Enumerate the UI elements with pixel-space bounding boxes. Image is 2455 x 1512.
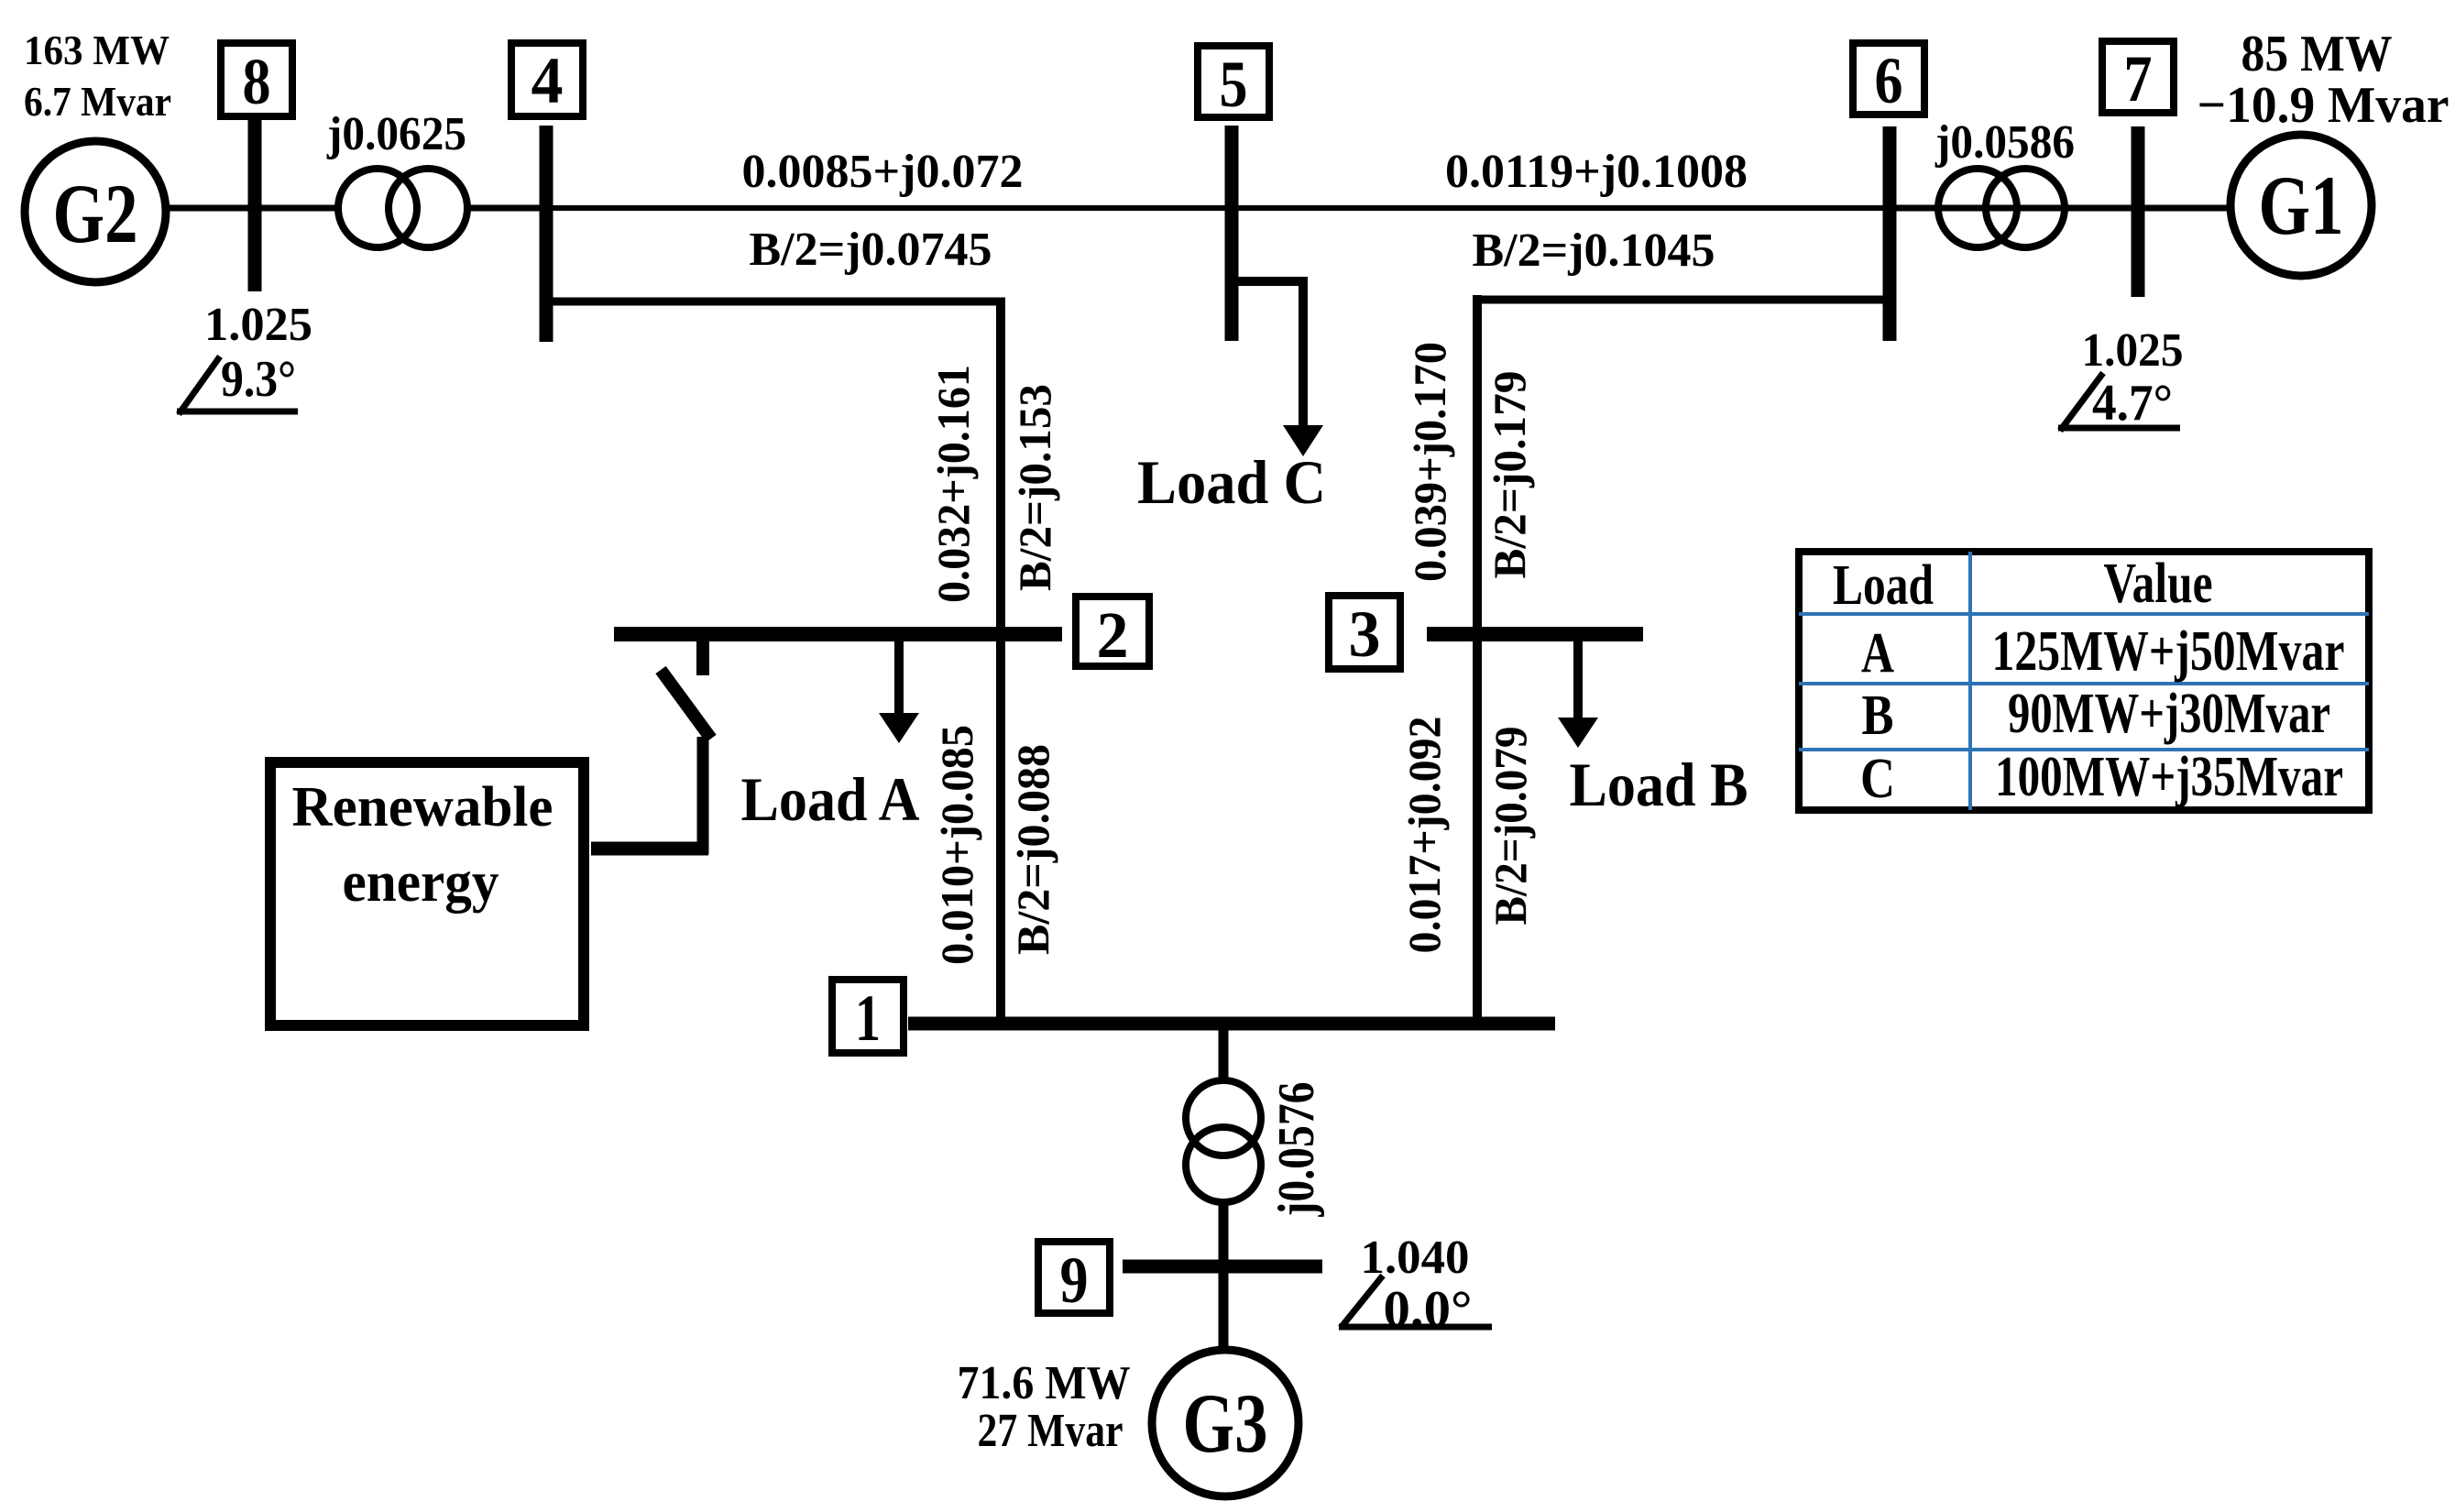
svg-text:G3: G3 (1183, 1376, 1268, 1470)
transformer T19 (bus1-bus9) (1186, 1080, 1261, 1202)
svg-text:Load: Load (1833, 554, 1934, 617)
wire line 2-1 (996, 641, 1005, 1018)
svg-text:163 MW: 163 MW (24, 27, 170, 73)
svg-text:6: 6 (1875, 44, 1903, 117)
load table row C (1860, 746, 2343, 810)
svg-text:B/2=j0.179: B/2=j0.179 (1484, 371, 1535, 579)
generator G2 (25, 141, 166, 282)
svg-text:1.040: 1.040 (1361, 1232, 1470, 1284)
load table header row (1833, 553, 2213, 617)
bus 7 (2132, 126, 2145, 297)
svg-text:0.017+j0.092: 0.017+j0.092 (1398, 717, 1450, 954)
svg-text:0.0085+j0.072: 0.0085+j0.072 (742, 146, 1024, 198)
svg-text:Value: Value (2104, 553, 2213, 615)
generator G1 (2230, 135, 2372, 276)
node box 8 (221, 43, 292, 118)
wire bus 9 to G3 (1219, 1266, 1229, 1352)
svg-text:5: 5 (1220, 48, 1248, 121)
svg-text:j0.0586: j0.0586 (1934, 116, 2075, 169)
svg-text:9.3°: 9.3° (221, 351, 296, 408)
svg-text:C: C (1860, 748, 1895, 810)
svg-text:9: 9 (1060, 1244, 1089, 1317)
load table row A (1861, 620, 2345, 685)
node box 7 (2102, 41, 2174, 115)
svg-text:4.7°: 4.7° (2092, 375, 2173, 432)
svg-text:j0.0576: j0.0576 (1268, 1082, 1325, 1218)
svg-text:0.039+j0.170: 0.039+j0.170 (1404, 342, 1455, 582)
bus 3 (1427, 627, 1643, 641)
svg-text:3: 3 (1349, 597, 1381, 671)
Load C tap wire from bus 5 (1232, 277, 1303, 427)
bus 8 (248, 116, 262, 291)
wire G2 to transformer T82 (165, 205, 342, 212)
svg-text:100MW+j35Mvar: 100MW+j35Mvar (1995, 746, 2343, 808)
svg-text:0.010+j0.085: 0.010+j0.085 (931, 725, 982, 965)
generator G1 output label "85 MW / -10.9 Mvar" (2197, 26, 2450, 134)
node box 1 (832, 980, 904, 1055)
node box 9 (1038, 1242, 1110, 1317)
node box 4 (511, 43, 583, 117)
generator G2 output label "163 MW / 6.7 Mvar" (24, 27, 171, 125)
wire bus6 to T67 to bus7 to G1 (1890, 205, 2233, 212)
bus 1 (908, 1017, 1555, 1031)
node box 3 (1329, 596, 1400, 671)
svg-text:85 MW: 85 MW (2241, 26, 2393, 82)
svg-text:1.025: 1.025 (2082, 324, 2184, 377)
wire line 4-5 (top) (546, 205, 1232, 211)
svg-text:27 Mvar: 27 Mvar (978, 1405, 1123, 1457)
wire line 6-3 (1477, 295, 1890, 634)
svg-text:G1: G1 (2259, 159, 2344, 252)
wire line 4-2 (546, 298, 1005, 634)
svg-text:125MW+j50Mvar: 125MW+j50Mvar (1992, 620, 2345, 683)
svg-text:2: 2 (1097, 598, 1129, 672)
bus 9 voltage label 1.040 angle 0.0deg (1339, 1232, 1492, 1338)
wire bus1 to transformer T19 (1219, 1024, 1229, 1083)
svg-text:1: 1 (855, 981, 881, 1055)
svg-text:0.0°: 0.0° (1384, 1281, 1473, 1338)
bus 8 voltage label 1.025 angle 9.3deg (177, 299, 312, 414)
wire T82 to bus 4 (467, 205, 550, 212)
svg-text:90MW+j30Mvar: 90MW+j30Mvar (2008, 683, 2330, 745)
svg-text:B/2=j0.079: B/2=j0.079 (1485, 727, 1536, 926)
load table frame (1799, 552, 2369, 810)
svg-text:G2: G2 (53, 167, 138, 260)
transformer T67 (bus6-bus7) (1938, 169, 2065, 247)
svg-text:71.6 MW: 71.6 MW (958, 1357, 1131, 1409)
svg-text:Load B: Load B (1570, 750, 1748, 819)
bus 5 (1225, 126, 1239, 341)
generator G3 output label "71.6 MW / 27 Mvar" (958, 1357, 1131, 1457)
svg-text:B: B (1862, 685, 1894, 747)
svg-text:1.025: 1.025 (204, 299, 312, 351)
svg-text:0.0119+j0.1008: 0.0119+j0.1008 (1445, 146, 1748, 198)
wire T19 to bus 9 (1219, 1200, 1229, 1260)
svg-text:8: 8 (243, 45, 271, 118)
svg-text:Load C: Load C (1137, 447, 1326, 517)
svg-text:energy: energy (343, 851, 499, 914)
wire line 5-6 (top) (1232, 205, 1890, 211)
switch (renewable energy disconnect) (591, 641, 711, 854)
Load A arrow (879, 641, 919, 743)
node box 2 (1076, 597, 1149, 672)
load table row B (1862, 683, 2331, 747)
svg-text:j0.0625: j0.0625 (326, 108, 466, 160)
svg-text:B/2=j0.1045: B/2=j0.1045 (1472, 225, 1715, 277)
generator G3 (1152, 1350, 1299, 1496)
bus 9 (1123, 1260, 1322, 1274)
node box 5 (1198, 46, 1269, 121)
svg-text:4: 4 (532, 44, 564, 117)
svg-text:Renewable: Renewable (292, 776, 553, 838)
svg-text:0.032+j0.161: 0.032+j0.161 (927, 365, 979, 603)
svg-text:6.7 Mvar: 6.7 Mvar (24, 78, 171, 125)
svg-text:B/2=j0.0745: B/2=j0.0745 (749, 224, 992, 276)
wire line 3-1 (1473, 641, 1482, 1018)
svg-text:7: 7 (2124, 42, 2153, 115)
svg-text:A: A (1861, 622, 1894, 685)
svg-text:B/2=j0.153: B/2=j0.153 (1009, 384, 1060, 591)
svg-text:−10.9 Mvar: −10.9 Mvar (2197, 77, 2450, 134)
svg-text:B/2=j0.088: B/2=j0.088 (1007, 744, 1058, 955)
svg-text:Load A: Load A (741, 764, 920, 834)
renewable energy source box (270, 762, 584, 1025)
bus 2 (614, 627, 1062, 641)
Load B arrow (1558, 641, 1598, 748)
bus 7 voltage label 1.025 angle 4.7deg (2058, 324, 2184, 432)
transformer T82 (bus8-bus4) (338, 169, 467, 247)
node box 6 (1853, 43, 1924, 117)
bus 4 (540, 126, 553, 342)
Load C arrowhead (1283, 425, 1323, 456)
bus 6 (1883, 126, 1897, 341)
